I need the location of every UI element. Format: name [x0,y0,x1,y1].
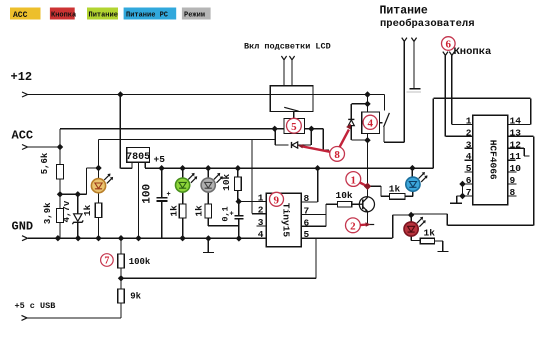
svg-text:3: 3 [466,139,472,150]
resistor R 10k base body [337,201,351,207]
input chevrons [22,38,455,321]
Tiny15 pin1 tick [239,201,266,203]
node +5 USB input arrow [22,315,28,320]
node: HCF pin7 [459,193,465,199]
svg-text:6: 6 [466,175,472,186]
wire ACC riser to relay row [59,129,61,147]
marker circle 1 [346,172,361,187]
wire orange LED to 1k [98,193,100,203]
relay K2 coil box (4) [362,112,380,133]
svg-text:9: 9 [510,175,516,186]
svg-text:2: 2 [466,127,472,138]
svg-text:8: 8 [304,193,310,204]
node: GND 1k orange [95,235,101,241]
svg-text:4: 4 [258,229,264,240]
Tiny15 pin8 tick and riser to +5 [301,168,318,202]
wire red 1k to ground [435,241,449,252]
svg-text:4: 4 [367,118,373,130]
wire collector riser (to relay 4 coil) [367,95,369,198]
node: orange LED top [95,165,101,171]
capacitor C2 0,1 plates [234,216,243,219]
svg-text:Кнопка: Кнопка [454,46,493,58]
boxes layer [57,86,508,303]
wire relay row (node B) [60,128,284,130]
svg-text:6: 6 [446,39,452,51]
node ACC input arrow [22,145,28,150]
wire relay5 right out [305,129,329,151]
resistor R 5,6k body [57,165,64,180]
svg-text:11: 11 [510,151,522,162]
svg-text:+: + [167,191,171,199]
node: GND green [179,235,185,241]
svg-text:5: 5 [466,163,472,174]
wire red LED node and leads [411,215,420,241]
node: GND 7805 [135,235,141,241]
wire Pitanie right terminal [410,42,421,89]
wire GND rail [28,237,266,239]
svg-text:HCF4066: HCF4066 [487,140,498,180]
ground symbol mid [203,238,214,252]
LED D5 green (power) [176,173,198,192]
node: +5/gray [205,165,211,171]
marker circle 7 [101,254,114,267]
marker circle 6 [442,37,456,51]
LED D7 blue (PC power) [406,172,428,191]
svg-text:6: 6 [304,217,310,228]
IC U HCF4066 box [473,115,508,205]
HCF4066 pins 6,7 ticks [463,184,473,196]
node: 100k/9k divider [118,275,124,281]
wire 0,1 cap leads [238,202,240,238]
node: GND zener [75,235,81,241]
svg-text:1: 1 [258,193,264,204]
svg-text:9k: 9k [130,292,141,302]
svg-text:10k: 10k [336,190,353,201]
node: relay5 right [308,126,314,132]
capacitor C1 100uF plates [157,198,168,201]
marker 8 arrow to relay4 diode [340,130,349,148]
svg-text:5,6k: 5,6k [40,152,50,174]
svg-text:8: 8 [510,187,516,198]
wire relay4 mech stub [379,122,382,124]
wire 7805 gnd pin [138,162,140,238]
LED D8 red (button) [404,217,426,236]
resistor R 1k (green LED) body [179,204,186,218]
svg-text:ACC: ACC [12,129,34,143]
resistor R 1k (gray LED) body [205,204,212,218]
red annotation markers [101,37,456,267]
wire pin5 riser to red LED node [393,215,412,238]
zener D1 4,7V symbol [72,214,83,224]
svg-text:12: 12 [510,139,522,150]
wire 5,6k to 3,9k node row [60,179,87,209]
wire +12 rail [28,94,385,96]
legend ACC swatch [10,8,41,20]
HCF4066 left short ticks pins 3,4,5 [465,148,473,172]
junction dots (diamonds) [55,91,466,281]
node: divider mid left [57,191,63,197]
svg-text:+: + [230,211,234,219]
resistor R 1k (blue LED) body [390,194,405,200]
node LCD backlight arrows [281,56,294,60]
wire Knopka left to pin2 HCF [445,56,472,137]
node: +12/7805 [117,91,123,97]
svg-text:Вкл подсветки LCD: Вкл подсветки LCD [244,42,331,52]
wire 10k base resistor lead [352,203,360,205]
node: blue LED top [409,165,415,171]
IC U Tiny15 box [266,193,301,246]
HCF4066 right ticks pins 12,11,10,9,8 [508,148,530,196]
svg-text:+5: +5 [154,154,166,165]
legend Knopka swatch [50,8,77,20]
node: GND 100k [118,235,124,241]
wire orange LED top [98,168,100,179]
HCF4066 pin14 tick [508,124,531,126]
wire divider node to pin5 loop [121,238,316,278]
marker circle 8 [330,147,345,162]
svg-text:1k: 1k [193,205,204,217]
node: relay4 top flyback [364,101,370,107]
node: GND 3,9k [55,235,61,241]
svg-text:100: 100 [142,184,154,204]
switch lever (converter power) [384,113,390,127]
svg-text:2: 2 [258,205,264,216]
svg-text:Tiny15: Tiny15 [281,203,292,238]
node: +5/100uF [158,165,164,171]
svg-text:1k: 1k [168,205,179,217]
svg-text:Питание: Питание [89,12,118,20]
resistor R 100k body [118,254,125,268]
svg-text:+12: +12 [11,70,33,84]
wire 3,9k to GND rail [59,223,61,239]
main wire layer [27,42,534,319]
svg-text:Питание РС: Питание РС [126,12,168,20]
legend Rezhim swatch [182,8,211,20]
node: HCF pin6 [459,181,465,187]
Tiny15 pin2 tick [252,213,266,215]
wire 100k branch [27,238,121,318]
Tiny15 pin3 tick [257,225,266,227]
svg-text:100k: 100k [129,257,151,267]
Tiny15 pin6 tick and riser [301,204,337,226]
node: GND 0,1 [236,235,242,241]
node: +5/10k [235,165,241,171]
svg-text:2: 2 [350,221,356,233]
svg-text:5: 5 [304,229,310,240]
wire green LED leads [182,168,184,238]
svg-text:14: 14 [510,116,522,127]
resistor R 9k body [118,289,125,303]
svg-text:3,9k: 3,9k [43,202,53,224]
regulator 7805 box [127,148,150,163]
HCF4066 gnd hook [450,196,462,203]
svg-text:10: 10 [510,163,522,174]
wire +12 feed to 7805 [120,95,132,169]
wire blue LED top to loop [412,98,530,177]
marker circle 9 [270,192,284,206]
Tiny15 pin5 row [301,237,393,239]
marker circle 5 [287,118,302,133]
marker 8 arrow to relay5 diode [303,146,330,151]
svg-text:4,7v: 4,7v [62,200,72,222]
svg-text:АСС: АСС [13,11,28,20]
node converter power arrows [402,38,417,42]
svg-text:13: 13 [510,127,522,138]
svg-text:7: 7 [304,206,310,217]
wire relay4 flyback loop [351,104,367,140]
relay K1 contact box [270,86,313,112]
wire LED node riser to pin2 net [99,140,276,169]
wire LCD stubs [284,60,292,86]
diode D2 flyback (relay 5) symbol [292,142,298,148]
wire orange 1k to GND [98,218,100,239]
node button (Knopka) arrows [443,52,455,56]
node: ACC junction [57,144,63,150]
resistor R 10k pullup body [235,177,242,191]
wire relay5 mech link [293,112,295,119]
wire Knopka right to pin1 HCF [452,56,473,125]
wire collector node to blue 1k [368,186,390,196]
wire blue 1k to LED [405,192,413,197]
svg-text:9: 9 [274,195,280,207]
svg-text:4: 4 [466,151,472,162]
legend Pitanie swatch [87,8,118,20]
svg-text:3: 3 [258,217,264,228]
svg-text:1k: 1k [82,204,93,216]
svg-text:7: 7 [104,256,109,267]
wire 10k pullup leads [237,168,239,202]
wire switch lower to Pitanie left [384,42,404,143]
node: +5/pin8 riser [314,165,320,171]
svg-text:10k: 10k [221,173,232,190]
wire 7805 out pin and +5 rail [145,162,433,168]
wire relay5 flyback loop [275,129,311,145]
node: +12/relay4 [364,91,370,97]
node GND input arrow [22,236,28,241]
wire gray LED leads [208,168,239,226]
wire 100uF cap leads [161,168,163,238]
svg-text:1: 1 [466,116,472,127]
LED D4 orange (ACC) [91,174,113,193]
wire +12 rail corner to switch feed [384,95,386,111]
node: GND symbol tap [205,235,211,241]
node: relay4 bottom flyback [364,137,370,143]
node: zener top [75,191,81,197]
svg-text:7805: 7805 [126,152,150,163]
node: relay5 left [272,126,278,132]
faint ground mark under converter terminal [407,91,422,93]
transistor Q1 [359,197,374,212]
svg-text:преобразователя: преобразователя [380,17,475,30]
node: pin1/10k/0,1 [236,198,242,204]
wire pin2 drop [251,140,253,214]
svg-text:Питание: Питание [380,5,428,18]
diode D3 flyback (relay 4) symbol [348,119,354,125]
diagonal elements (anti-aliased) [284,107,389,127]
wire emitter down [367,212,369,224]
svg-text:+5 с USB: +5 с USB [15,301,56,311]
switch lever in relay K1 contact box [284,107,298,111]
marker circle 2 [346,218,361,233]
svg-text:8: 8 [334,149,340,161]
wire zener branch [77,194,79,238]
node: +5/green [179,165,185,171]
HCF4066 pin13 tick [508,135,534,137]
node collector (maroon diamond) [364,183,371,190]
resistor R 1k (orange LED) body [95,203,102,218]
svg-text:5: 5 [291,121,297,133]
LED D6 gray (mode) [201,173,223,192]
wire orange LED jog to divider node [87,168,99,194]
svg-text:1k: 1k [424,228,436,239]
relay K1 coil box (5) [284,119,305,134]
resistor R 1k (red LED) body [420,238,434,244]
Tiny15 pin7 tick [301,214,326,216]
svg-text:GND: GND [12,220,34,234]
legend Pitanie PC swatch [124,8,177,20]
svg-text:Режим: Режим [184,12,205,20]
wire ACC input [28,146,60,148]
marker circle 4 [363,115,377,129]
wire ACC divider top [59,147,61,165]
resistor R 3,9k body [57,209,64,223]
svg-text:1k: 1k [389,184,401,195]
node +12 input arrow [22,92,28,97]
wire red node to pin13 [411,136,534,225]
node: red LED top [408,212,414,218]
svg-text:Кнопка: Кнопка [51,12,77,20]
svg-text:1: 1 [351,174,357,186]
svg-text:7: 7 [466,187,472,198]
